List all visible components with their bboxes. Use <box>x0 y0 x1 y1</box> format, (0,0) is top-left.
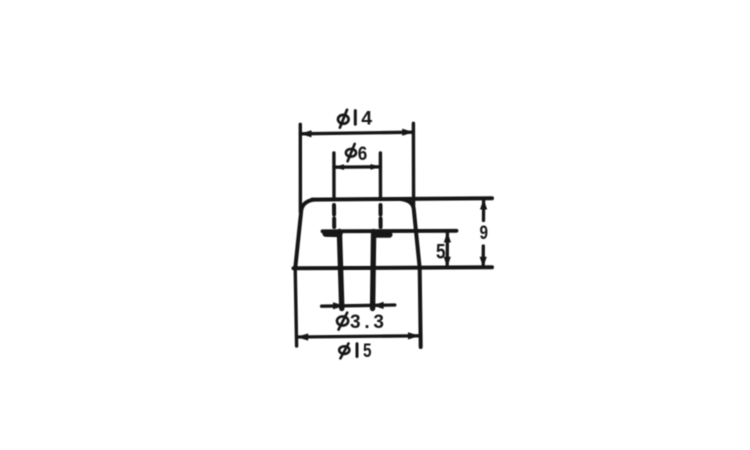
extension line phi6 left (solid above body) <box>332 153 336 200</box>
label phi3.3 <box>337 312 384 333</box>
hidden line phi6 right (dashed inside body) <box>379 205 383 227</box>
dimension line phi15 <box>297 336 419 337</box>
hidden line phi6 left (dashed inside body) <box>332 205 336 227</box>
svg-text:5: 5 <box>436 239 446 263</box>
arrowhead dim9 bottom <box>480 257 487 268</box>
dimension line phi3.3 <box>322 305 395 306</box>
arrowhead phi3.3 left (outside, pointing right) <box>333 302 344 309</box>
label phi15 <box>339 341 372 362</box>
body top surface and right extension line for dim 9 <box>312 198 492 199</box>
body right side with extension line down to dim phi15 <box>402 199 421 347</box>
hole wall left (extends below body to phi3.3 dim) <box>339 232 341 309</box>
dimension line 9 upper segment <box>482 200 485 221</box>
arrowhead phi6 left <box>334 164 344 170</box>
label phi6 <box>346 143 367 165</box>
insert slot top line (extends right for dim 5) <box>323 229 457 233</box>
arrowhead phi6 right <box>371 164 381 170</box>
arrowhead phi14 right <box>402 129 414 136</box>
arrowhead dim5 bottom <box>444 257 451 267</box>
arrowhead phi15 right <box>408 332 420 339</box>
svg-text:4: 4 <box>361 108 372 130</box>
dimension line 9 lower segment <box>482 246 485 267</box>
extension line phi15 left <box>295 268 296 346</box>
dimension line phi14 <box>301 132 414 134</box>
arrowhead phi15 left <box>297 333 309 340</box>
arrowhead dim5 top <box>444 232 451 243</box>
body left side <box>295 200 314 268</box>
extension line phi14 right <box>412 123 416 207</box>
label phi14 <box>338 108 372 130</box>
svg-text:6: 6 <box>358 143 368 165</box>
insert right flange (section fill) <box>376 231 389 237</box>
svg-text:5: 5 <box>363 341 372 362</box>
svg-text:3.3: 3.3 <box>350 312 384 333</box>
arrowhead phi3.3 right (outside, pointing left) <box>372 302 383 309</box>
dimension line 5 <box>446 233 449 267</box>
extension line phi6 right (solid above body) <box>379 153 383 200</box>
dimension line phi6 <box>334 165 381 169</box>
insert left flange (section fill) <box>326 230 339 237</box>
body bottom line extended right for dim 9 <box>294 267 493 268</box>
hole wall right (extends below body to phi3.3 dim) <box>373 232 374 309</box>
arrowhead dim9 top <box>480 199 487 210</box>
svg-text:9: 9 <box>480 223 489 244</box>
arrowhead phi14 left <box>300 130 312 137</box>
extension line phi14 left <box>299 124 303 212</box>
